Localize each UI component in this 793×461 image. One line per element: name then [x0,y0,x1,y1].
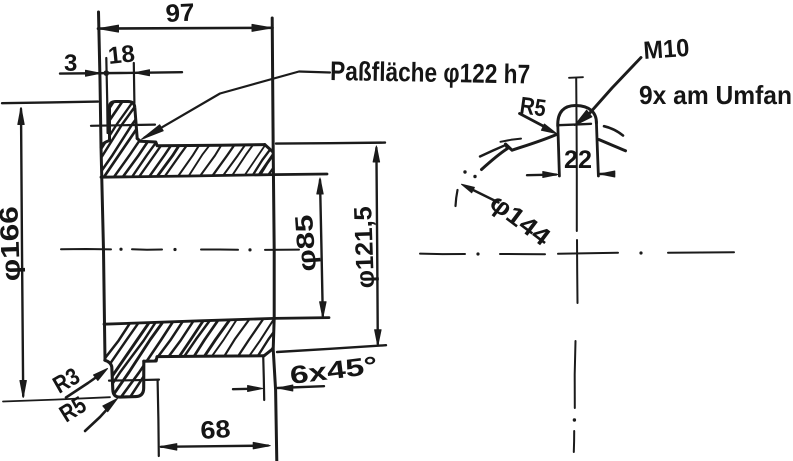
svg-text:φ121,5: φ121,5 [349,206,380,289]
svg-text:68: 68 [199,415,231,445]
svg-text:φ166: φ166 [0,206,26,282]
svg-text:22: 22 [564,146,592,174]
svg-text:97: 97 [165,0,195,28]
svg-text:φ85: φ85 [290,214,322,273]
svg-text:9x am Umfang: 9x am Umfang [639,80,793,110]
svg-text:Paßfläche φ122 h7: Paßfläche φ122 h7 [330,56,530,89]
svg-text:M10: M10 [642,34,690,65]
svg-text:3: 3 [64,50,77,77]
svg-text:R5: R5 [518,92,548,122]
svg-text:18: 18 [107,40,136,70]
